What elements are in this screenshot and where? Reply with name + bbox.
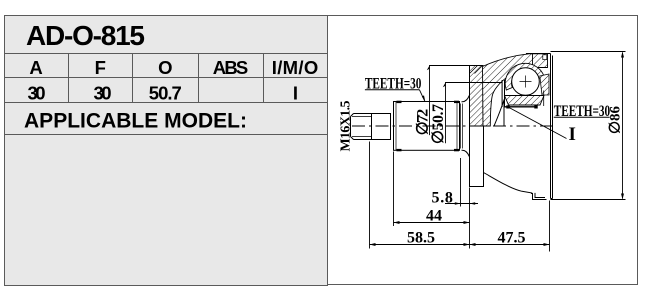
svg-text:30: 30 — [28, 83, 46, 104]
svg-text:∅86: ∅86 — [608, 106, 624, 135]
bell housing neck wall (section, hatched band) — [483, 54, 548, 126]
ball center marks — [520, 76, 532, 88]
svg-text:I: I — [569, 124, 576, 145]
spline bore end marks — [506, 105, 509, 108]
svg-text:50.7: 50.7 — [149, 83, 182, 104]
bell outer silhouette bottom — [484, 173, 532, 195]
svg-text:AD-O-815: AD-O-815 — [26, 20, 145, 51]
svg-text:I/M/O: I/M/O — [272, 57, 319, 78]
table column lines — [69, 54, 264, 103]
dimension phi86 — [551, 52, 626, 200]
spline chamfer line right — [456, 102, 458, 151]
dimension 5.8 — [445, 158, 478, 249]
cage band over ball (hatched annulus) — [505, 63, 544, 90]
leader to bore spline with I mark — [509, 108, 567, 139]
svg-text:O: O — [158, 57, 172, 78]
boot groove fillet bottom — [462, 150, 470, 156]
thread minor diameter lines — [352, 117, 372, 137]
svg-text:47.5: 47.5 — [498, 230, 526, 247]
bell bottom rim band — [533, 193, 547, 200]
thread runout line — [371, 114, 373, 140]
drawing frame — [328, 16, 638, 285]
spline chamfer line left — [395, 102, 397, 151]
bell top edge — [526, 53, 551, 55]
cage left bar — [502, 80, 504, 107]
bar chamfer diagonals — [470, 66, 483, 74]
right face chamfer lines of splined section — [461, 104, 463, 149]
bar lower half silhouette — [470, 126, 484, 187]
rim block left edge — [532, 54, 534, 68]
bell open end face — [551, 54, 553, 199]
ball — [512, 68, 540, 96]
dimension 47.5 — [470, 201, 550, 252]
race right vline — [543, 91, 545, 107]
svg-text:30: 30 — [94, 83, 112, 104]
svg-text:58.5: 58.5 — [407, 229, 435, 246]
dimension: phi72 leader — [430, 66, 470, 136]
inner race (hatched) — [505, 96, 545, 106]
svg-text:M16X1.5: M16X1.5 — [339, 101, 354, 152]
circlip groove notch — [543, 55, 547, 60]
table row lines — [5, 54, 328, 135]
boot groove wall (hatched bar) — [470, 66, 484, 187]
svg-text:ABS: ABS — [213, 57, 249, 78]
svg-text:∅72: ∅72 — [415, 109, 432, 136]
leader to spline — [419, 90, 424, 101]
spline bore line — [505, 106, 537, 108]
inner cavity contour — [494, 99, 504, 126]
shaft neck — [372, 114, 391, 140]
svg-text:5.8: 5.8 — [432, 190, 454, 207]
boot groove fillet top — [462, 96, 470, 102]
centerline — [352, 125, 556, 127]
svg-text:A: A — [29, 57, 42, 78]
table background — [5, 16, 328, 286]
dimension 58.5 — [370, 142, 470, 249]
dimension: phi50.7 leader — [446, 83, 503, 144]
dimension 44 — [394, 152, 470, 227]
cage right sliver — [540, 74, 549, 95]
splined shaft section — [394, 102, 460, 151]
svg-text:∅50.7: ∅50.7 — [430, 104, 447, 144]
svg-text:APPLICABLE MODEL:: APPLICABLE MODEL: — [24, 110, 247, 133]
threaded stub shaft M16X1.5 — [351, 114, 372, 140]
groove white below block — [543, 68, 550, 75]
svg-text:44: 44 — [426, 208, 442, 225]
svg-text:I: I — [293, 83, 298, 104]
svg-text:F: F — [95, 57, 106, 78]
spline end marks — [397, 101, 460, 152]
